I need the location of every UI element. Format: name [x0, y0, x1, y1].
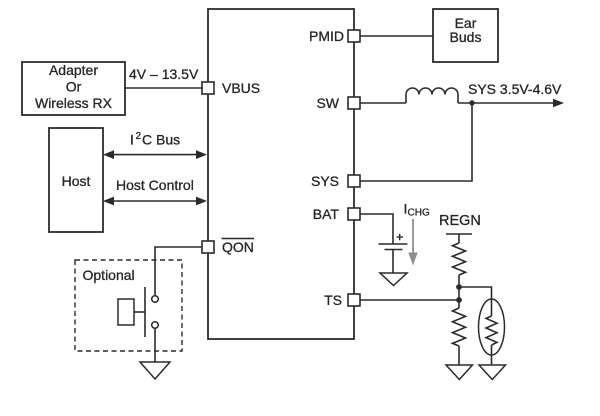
- svg-text:PMID: PMID: [309, 28, 344, 44]
- svg-text:SYS 3.5V-4.6V: SYS 3.5V-4.6V: [468, 81, 562, 97]
- svg-text:2: 2: [136, 131, 142, 142]
- svg-text:Host: Host: [62, 173, 91, 189]
- svg-text:TS: TS: [324, 292, 342, 308]
- svg-text:BAT: BAT: [313, 206, 340, 222]
- svg-text:CHG: CHG: [408, 208, 430, 219]
- svg-text:Buds: Buds: [450, 29, 482, 45]
- svg-text:Optional: Optional: [83, 267, 135, 283]
- svg-text:Wireless RX: Wireless RX: [35, 95, 113, 111]
- svg-text:QON: QON: [222, 239, 254, 255]
- svg-text:Or: Or: [66, 79, 82, 95]
- svg-text:C Bus: C Bus: [142, 132, 180, 148]
- svg-text:Host Control: Host Control: [116, 177, 194, 193]
- svg-text:I: I: [130, 132, 134, 148]
- svg-text:4V – 13.5V: 4V – 13.5V: [129, 66, 199, 82]
- svg-text:Adapter: Adapter: [49, 62, 98, 78]
- svg-text:SW: SW: [316, 95, 339, 111]
- svg-text:REGN: REGN: [439, 213, 481, 229]
- svg-text:VBUS: VBUS: [222, 80, 260, 96]
- svg-text:SYS: SYS: [311, 173, 339, 189]
